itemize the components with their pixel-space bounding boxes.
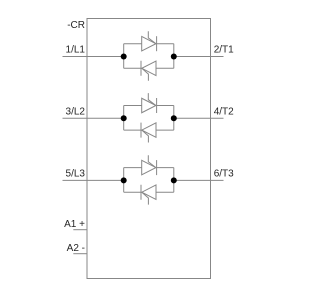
wire bottom branch anode segment L2 xyxy=(156,129,174,131)
thyristor V1 (top, conducting left-to-right) xyxy=(142,31,157,51)
wire bottom branch cathode segment L2 xyxy=(124,129,141,131)
svg-text:A2 -: A2 - xyxy=(67,243,85,254)
wire left riser L2 xyxy=(123,106,125,131)
terminal label 2/T1 xyxy=(214,45,234,56)
wire stub A2 xyxy=(73,253,87,255)
wire output 6/T3 xyxy=(174,179,224,181)
terminal label A2 - xyxy=(67,243,85,254)
terminal label 3/L2 xyxy=(66,107,86,118)
wire left riser L1 xyxy=(123,44,125,69)
wire right riser L2 xyxy=(173,106,175,131)
terminal label 6/T3 xyxy=(214,169,234,180)
wire right riser L1 xyxy=(173,44,175,69)
terminal label 4/T2 xyxy=(214,107,234,118)
node junction left L1 xyxy=(121,54,127,60)
thyristor V5 (top, conducting left-to-right) xyxy=(142,155,157,175)
thyristor V6 (bottom, conducting right-to-left) xyxy=(141,185,156,205)
wire bottom branch cathode segment L3 xyxy=(124,191,141,193)
svg-text:A1 +: A1 + xyxy=(64,219,85,230)
node junction right T2 xyxy=(171,115,177,121)
terminal label A1 + xyxy=(64,219,85,230)
svg-text:6/T3: 6/T3 xyxy=(214,169,234,180)
svg-text:4/T2: 4/T2 xyxy=(214,107,234,118)
terminal label 5/L3 xyxy=(66,169,86,180)
thyristor V3 (top, conducting left-to-right) xyxy=(142,93,157,113)
svg-text:-CR: -CR xyxy=(67,20,85,31)
wire bottom branch cathode segment L1 xyxy=(124,67,141,69)
svg-text:3/L2: 3/L2 xyxy=(66,107,86,118)
wire right riser L3 xyxy=(173,168,175,193)
wire left riser L3 xyxy=(123,168,125,193)
wire top branch anode segment L2 xyxy=(124,105,142,107)
wire input 3/L2 xyxy=(63,117,124,119)
wire input 5/L3 xyxy=(63,179,124,181)
wire input 1/L1 xyxy=(63,56,124,58)
thyristor V2 (bottom, conducting right-to-left) xyxy=(141,61,156,81)
wire top branch anode segment L3 xyxy=(124,167,142,169)
svg-text:2/T1: 2/T1 xyxy=(214,45,234,56)
wire top branch cathode segment L3 xyxy=(157,167,174,169)
wire stub A1 xyxy=(73,229,87,231)
node junction left L2 xyxy=(121,115,127,121)
node junction right T1 xyxy=(171,54,177,60)
svg-text:1/L1: 1/L1 xyxy=(66,45,86,56)
label -CR xyxy=(67,20,85,31)
wire top branch cathode segment L2 xyxy=(157,105,174,107)
node junction right T3 xyxy=(171,177,177,183)
wire bottom branch anode segment L1 xyxy=(156,67,174,69)
wire output 4/T2 xyxy=(174,117,224,119)
svg-text:5/L3: 5/L3 xyxy=(66,169,86,180)
node junction left L3 xyxy=(121,177,127,183)
wire top branch anode segment L1 xyxy=(124,43,142,45)
wire top branch cathode segment L1 xyxy=(157,43,174,45)
terminal label 1/L1 xyxy=(66,45,86,56)
contactor enclosure box -CR xyxy=(87,19,211,279)
wire output 2/T1 xyxy=(174,56,224,58)
wire bottom branch anode segment L3 xyxy=(156,191,174,193)
thyristor V4 (bottom, conducting right-to-left) xyxy=(141,123,156,143)
